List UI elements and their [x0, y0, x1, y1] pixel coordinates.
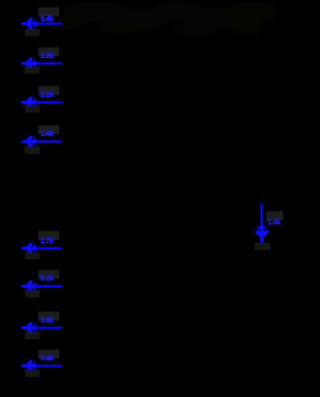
- aircraft A1 icon: [21, 18, 37, 29]
- aircraft A5 icon: [21, 243, 37, 254]
- aircraft A4 lower box: [25, 147, 40, 154]
- faint dark horizon band at top: [52, 0, 278, 37]
- aircraft A6 info box: [39, 270, 60, 279]
- aircraft A3 trail: [34, 101, 63, 103]
- aircraft A4 icon: [21, 136, 37, 147]
- aircraft A8 lower box: [25, 370, 40, 377]
- aircraft A7 lower box: [25, 332, 40, 339]
- aircraft A8 info box: [39, 350, 60, 359]
- aircraft A7 trail: [34, 327, 63, 329]
- aircraft A9 icon: [256, 225, 268, 243]
- aircraft A9 lower box: [255, 243, 270, 250]
- aircraft A4 info box: [39, 126, 60, 135]
- aircraft A2 icon: [21, 58, 37, 69]
- aircraft A6 lower box: [25, 290, 40, 297]
- aircraft A2 lower box: [25, 67, 40, 74]
- aircraft A7 info box: [39, 312, 60, 321]
- aircraft A5 trail: [34, 247, 63, 249]
- aircraft A7 icon: [21, 322, 37, 333]
- aircraft A8 trail: [34, 365, 63, 367]
- aircraft A3 icon: [21, 97, 37, 108]
- glow overlay: [21, 8, 283, 377]
- aircraft A6 icon: [21, 281, 37, 292]
- aircraft A2 info box: [39, 48, 60, 57]
- aircraft A3 lower box: [25, 105, 40, 112]
- aircraft A6 trail: [34, 285, 63, 287]
- aircraft A9 info box: [267, 212, 284, 221]
- aircraft A9 trail (vertical, heading down): [261, 203, 263, 229]
- aircraft A3 info box: [39, 86, 60, 95]
- aircraft A1 lower box: [25, 29, 40, 36]
- aircraft A5 info box: [39, 231, 60, 240]
- aircraft A1 info box: [39, 8, 60, 17]
- aircraft A8 icon: [21, 360, 37, 371]
- aircraft A5 lower box: [25, 252, 40, 259]
- aircraft A1 trail: [34, 23, 63, 25]
- aircraft A2 trail: [34, 63, 63, 65]
- aircraft A4 trail: [34, 141, 63, 143]
